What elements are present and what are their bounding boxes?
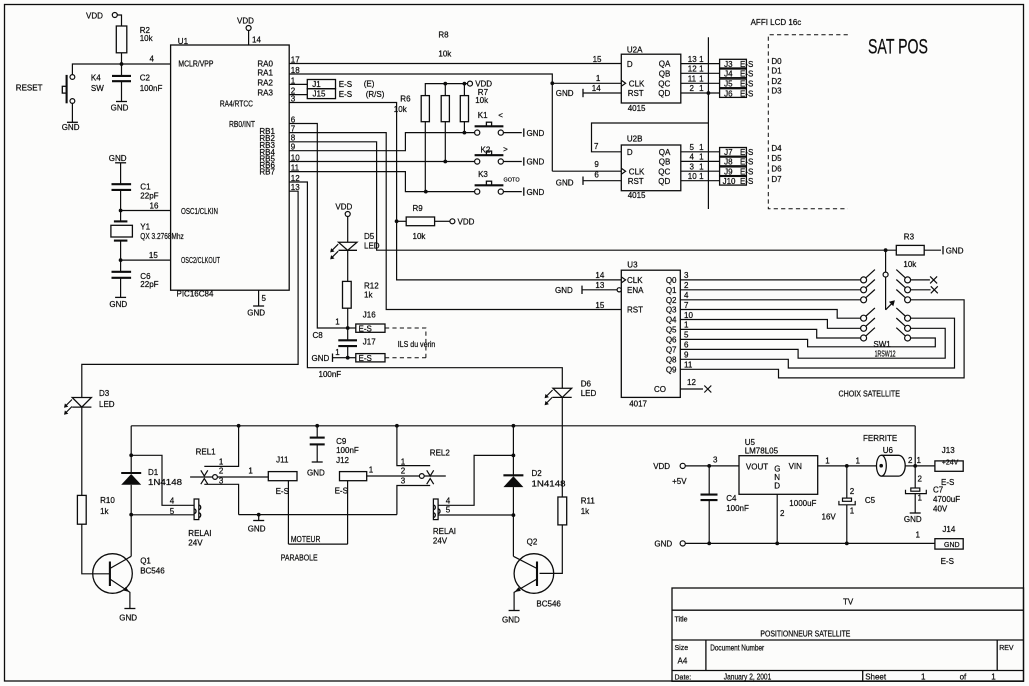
rail +24V top xyxy=(131,425,915,427)
svg-text:RB7: RB7 xyxy=(259,168,275,177)
svg-text:ENA: ENA xyxy=(627,286,644,295)
svg-text:C1: C1 xyxy=(140,183,151,192)
svg-text:13: 13 xyxy=(595,281,604,290)
ground C9 xyxy=(307,462,325,478)
svg-text:14: 14 xyxy=(252,36,261,45)
svg-text:CLK: CLK xyxy=(629,167,645,176)
svg-text:Size: Size xyxy=(675,645,689,652)
resistor R3 xyxy=(896,233,924,270)
svg-text:REL2: REL2 xyxy=(430,448,451,457)
svg-text:7: 7 xyxy=(684,301,689,310)
svg-text:1: 1 xyxy=(401,457,406,466)
node K2 junction xyxy=(443,160,447,164)
svg-text:J3: J3 xyxy=(724,60,733,69)
svg-text:VDD: VDD xyxy=(237,16,254,25)
U1 right pin numbers xyxy=(291,55,300,192)
wire VDD to R2 xyxy=(117,15,121,26)
wire ILS dashed xyxy=(385,328,435,358)
capacitor C9 xyxy=(310,426,359,462)
node K3 junction xyxy=(424,190,428,194)
wire node to U1 pin4 xyxy=(122,63,171,65)
svg-text:GND: GND xyxy=(904,515,922,524)
svg-text:1000uF: 1000uF xyxy=(789,499,816,508)
svg-text:D6: D6 xyxy=(771,165,782,174)
jumper J8 xyxy=(720,157,754,167)
wire U3 CO no-connect xyxy=(680,386,711,393)
svg-text:GND: GND xyxy=(654,540,672,549)
svg-text:E-S: E-S xyxy=(740,168,753,177)
op IC U2A 4015 xyxy=(621,45,681,113)
transistor Q2 xyxy=(513,537,561,610)
svg-text:FERRITE: FERRITE xyxy=(863,434,897,443)
svg-text:4700uF: 4700uF xyxy=(933,495,960,504)
svg-text:14: 14 xyxy=(595,271,604,280)
wire D6 to R11 xyxy=(561,397,563,497)
wire R3 to ground xyxy=(924,249,941,251)
svg-text:1: 1 xyxy=(684,321,689,330)
svg-text:1: 1 xyxy=(219,457,224,466)
jumper J7 xyxy=(720,148,754,158)
node rail D2 xyxy=(512,424,516,428)
transistor Q1 xyxy=(93,554,166,609)
svg-text:GND: GND xyxy=(109,154,127,163)
node pullup right xyxy=(463,82,467,86)
ground C1 top xyxy=(109,154,127,184)
svg-text:+24V: +24V xyxy=(942,460,959,467)
svg-text:E-S: E-S xyxy=(359,354,372,363)
crystal Y1 xyxy=(111,211,184,261)
relay contact REL2 xyxy=(397,426,450,515)
svg-text:GND: GND xyxy=(946,246,964,255)
svg-text:40V: 40V xyxy=(933,505,948,514)
svg-text:J15: J15 xyxy=(313,89,326,98)
jumper J6 xyxy=(720,89,754,99)
svg-text:1: 1 xyxy=(825,457,830,466)
svg-text:Q8: Q8 xyxy=(666,355,677,364)
svg-text:U1: U1 xyxy=(178,37,189,46)
svg-text:Q7: Q7 xyxy=(666,345,677,354)
svg-text:GND: GND xyxy=(555,286,573,295)
svg-text:E-S: E-S xyxy=(740,70,753,79)
svg-text:E-S: E-S xyxy=(740,80,753,89)
U3 clock triangle xyxy=(621,277,625,283)
svg-text:of: of xyxy=(960,673,967,682)
svg-text:REV: REV xyxy=(999,645,1014,652)
svg-text:K1: K1 xyxy=(478,111,488,120)
resistor R2 xyxy=(116,26,153,53)
svg-text:Date:: Date: xyxy=(675,675,692,682)
wire U3 Q4 to SW1 xyxy=(680,320,860,329)
svg-text:J10: J10 xyxy=(723,177,736,186)
svg-text:RB0/INT: RB0/INT xyxy=(229,120,255,129)
wire U2A QD to J6 xyxy=(681,92,720,94)
led D3 xyxy=(64,389,115,415)
node CLK branch xyxy=(550,81,554,85)
wire coil REL2 pin5 xyxy=(438,506,513,516)
button K2 xyxy=(475,145,509,164)
svg-text:MCLR/VPP: MCLR/VPP xyxy=(178,60,213,69)
svg-text:E-S: E-S xyxy=(740,148,753,157)
svg-text:2: 2 xyxy=(780,509,785,518)
resistor R6 (left pullup) xyxy=(394,95,430,122)
resistor R8 labels xyxy=(438,31,452,59)
svg-text:R9: R9 xyxy=(413,204,424,213)
node GND C5 xyxy=(845,542,849,546)
svg-text:2: 2 xyxy=(850,487,855,496)
SW1 wiper arrow xyxy=(886,300,895,310)
svg-text:A4: A4 xyxy=(678,657,688,666)
wire RA2 pin1 to J1 xyxy=(289,83,307,85)
svg-text:Document Number: Document Number xyxy=(710,644,764,653)
svg-text:RA4/RTCC: RA4/RTCC xyxy=(220,100,253,109)
SW1 upper-left contacts xyxy=(861,270,875,303)
SW1 no-connect X marks xyxy=(911,276,938,293)
svg-text:U2A: U2A xyxy=(627,45,643,54)
svg-text:BC546: BC546 xyxy=(140,566,165,575)
svg-text:MOTEUR: MOTEUR xyxy=(291,535,321,544)
node J16 xyxy=(313,318,350,341)
svg-text:C8: C8 xyxy=(313,331,324,340)
svg-text:11: 11 xyxy=(688,75,697,84)
wire pin15 xyxy=(121,251,171,260)
svg-text:PIC16C84: PIC16C84 xyxy=(177,290,214,299)
svg-text:J11: J11 xyxy=(276,455,289,464)
svg-text:Q2: Q2 xyxy=(527,537,538,546)
wire rail to D2 xyxy=(512,426,514,456)
node pullup mid xyxy=(443,82,447,86)
wire U3 Q5 to SW1 xyxy=(680,329,860,338)
svg-text:C9: C9 xyxy=(336,437,347,446)
svg-text:GND: GND xyxy=(527,188,545,197)
svg-text:1: 1 xyxy=(916,531,921,540)
svg-text:K2: K2 xyxy=(481,145,491,154)
svg-text:1: 1 xyxy=(921,673,926,682)
wire D1 to coil pin4 xyxy=(131,455,194,505)
wire left pullup to K3 row xyxy=(424,122,426,192)
svg-text:PARABOLE: PARABOLE xyxy=(281,554,318,563)
svg-text:2: 2 xyxy=(690,84,695,93)
svg-text:22pF: 22pF xyxy=(140,191,158,200)
relay contact REL1 xyxy=(190,426,239,515)
svg-text:QC: QC xyxy=(658,80,670,89)
svg-text:15: 15 xyxy=(593,55,602,64)
node J17 ground xyxy=(335,348,349,360)
svg-text:Q4: Q4 xyxy=(666,316,677,325)
SW1 upper-right contacts xyxy=(896,270,910,303)
svg-text:C4: C4 xyxy=(726,494,737,503)
svg-text:1: 1 xyxy=(918,493,923,502)
svg-text:GND: GND xyxy=(248,525,266,534)
svg-text:9: 9 xyxy=(684,351,689,360)
svg-text:VDD: VDD xyxy=(458,217,475,226)
svg-text:1: 1 xyxy=(850,506,855,515)
wire node to switch K4 xyxy=(72,64,121,75)
wire R10 to Q1 base xyxy=(82,524,110,574)
jumper J12 xyxy=(335,472,367,496)
svg-text:GND: GND xyxy=(502,615,520,624)
svg-text:2: 2 xyxy=(219,467,224,476)
svg-text:15: 15 xyxy=(149,251,158,260)
relay coil REL2 xyxy=(433,499,456,546)
svg-text:Q5: Q5 xyxy=(666,325,677,334)
svg-text:J5: J5 xyxy=(724,80,733,89)
wire R11 to Q2 base xyxy=(540,525,563,574)
U1 pin5 ground xyxy=(247,290,266,317)
svg-text:RA0: RA0 xyxy=(257,60,273,69)
wire J11 to motor xyxy=(287,481,289,544)
svg-text:J13: J13 xyxy=(942,446,955,455)
svg-text:5: 5 xyxy=(446,506,451,515)
wire K4 to ground xyxy=(71,103,73,122)
svg-text:RA3: RA3 xyxy=(257,88,273,97)
op IC U3 4017 xyxy=(621,260,680,408)
wire RB6 pin12 to D6 xyxy=(289,182,562,388)
svg-text:J4: J4 xyxy=(724,70,733,79)
svg-text:Q9: Q9 xyxy=(666,365,677,374)
svg-text:K3: K3 xyxy=(478,170,488,179)
svg-text:RELAI: RELAI xyxy=(433,527,456,536)
ground K1 xyxy=(503,128,544,137)
wire RB0 pin6 to J16 node xyxy=(289,124,348,329)
U1 pin labels inside xyxy=(178,60,275,266)
op IC U1 PIC16C84 xyxy=(171,37,290,299)
svg-text:6: 6 xyxy=(594,170,599,179)
svg-text:Q0: Q0 xyxy=(666,276,677,285)
svg-text:QC: QC xyxy=(658,167,670,176)
jumper J13 xyxy=(915,446,963,487)
svg-text:1: 1 xyxy=(699,84,704,93)
svg-text:6: 6 xyxy=(684,341,689,350)
svg-text:1: 1 xyxy=(991,673,996,682)
svg-text:C7: C7 xyxy=(933,486,944,495)
svg-text:CLK: CLK xyxy=(629,80,645,89)
U2A pin numbers xyxy=(592,55,704,93)
node VIN C5 xyxy=(845,464,849,468)
SW1 lower-left contacts xyxy=(861,308,875,341)
svg-text:1: 1 xyxy=(699,162,704,171)
motor box MOTEUR xyxy=(288,535,347,544)
svg-text:QB: QB xyxy=(659,157,671,166)
svg-text:>: > xyxy=(503,145,508,154)
svg-text:QD: QD xyxy=(658,89,670,98)
wire pin16 xyxy=(121,201,171,210)
jumper J11 xyxy=(268,455,297,496)
svg-text:RA1: RA1 xyxy=(257,69,273,78)
svg-text:LED: LED xyxy=(581,389,597,398)
svg-text:10k: 10k xyxy=(438,50,452,59)
svg-text:D1: D1 xyxy=(771,67,782,76)
capacitor C6 xyxy=(112,260,159,297)
svg-text:D5: D5 xyxy=(364,232,375,241)
power VDD (R2 pull-up) xyxy=(86,12,117,21)
svg-text:1: 1 xyxy=(699,143,704,152)
node pin16 xyxy=(119,209,123,213)
wire D5 to R12 xyxy=(347,250,349,281)
svg-text:10: 10 xyxy=(684,311,693,320)
svg-text:4: 4 xyxy=(170,496,175,505)
capacitor C1 xyxy=(112,183,159,211)
svg-text:QX 3.2768Mhz: QX 3.2768Mhz xyxy=(140,232,184,241)
svg-text:4: 4 xyxy=(446,496,451,505)
svg-text:D4: D4 xyxy=(771,144,782,153)
op IC U2B 4015 xyxy=(621,135,681,201)
svg-text:D7: D7 xyxy=(771,175,782,184)
node D0-D3 labels xyxy=(771,57,782,96)
wire RB3 pin9 to K1 xyxy=(289,133,474,151)
svg-text:January 2, 2001: January 2, 2001 xyxy=(724,673,772,682)
svg-text:GND: GND xyxy=(312,354,330,363)
svg-text:1RSW12: 1RSW12 xyxy=(875,350,896,359)
wire U2A QB to J4 xyxy=(681,72,720,74)
svg-text:VOUT: VOUT xyxy=(746,462,768,471)
rail motor ground xyxy=(239,514,397,516)
svg-text:REL1: REL1 xyxy=(196,447,217,456)
svg-text:D: D xyxy=(627,148,633,157)
svg-text:3: 3 xyxy=(690,162,695,171)
svg-text:RESET: RESET xyxy=(16,84,43,93)
led D6 xyxy=(545,380,597,406)
svg-text:E-S: E-S xyxy=(339,80,352,89)
svg-text:10k: 10k xyxy=(413,232,427,241)
node D2 anode xyxy=(512,513,516,517)
svg-text:J17: J17 xyxy=(363,338,376,347)
svg-text:15: 15 xyxy=(595,301,604,310)
svg-text:GND: GND xyxy=(247,309,265,318)
svg-text:4: 4 xyxy=(684,291,689,300)
switch K4 xyxy=(62,73,104,103)
svg-text:D: D xyxy=(774,482,780,491)
relay coil REL1 xyxy=(188,499,211,548)
node rail REL2 pin1 xyxy=(395,424,399,428)
svg-text:100nF: 100nF xyxy=(319,370,342,379)
svg-text:7: 7 xyxy=(594,142,599,151)
svg-text:QA: QA xyxy=(659,148,671,157)
svg-text:5: 5 xyxy=(170,507,175,516)
wire coil pin5 xyxy=(131,507,194,516)
svg-text:GND: GND xyxy=(556,89,574,98)
svg-text:Q2: Q2 xyxy=(666,296,677,305)
node J13 xyxy=(913,464,917,468)
svg-text:D2: D2 xyxy=(532,469,543,478)
ground K3 xyxy=(503,187,544,196)
wire serial bus xyxy=(707,37,709,209)
svg-text:GOTO: GOTO xyxy=(504,177,521,183)
svg-text:C2: C2 xyxy=(140,74,151,83)
wire RB4 pin10 to K2 xyxy=(289,161,475,163)
ground C2 xyxy=(111,102,129,113)
capacitor C2 xyxy=(112,64,162,102)
node VDD C4 xyxy=(707,464,711,468)
svg-text:GND: GND xyxy=(527,158,545,167)
svg-text:J12: J12 xyxy=(336,456,349,465)
svg-text:GND: GND xyxy=(307,469,325,478)
svg-text:VDD: VDD xyxy=(86,12,103,21)
svg-text:Q1: Q1 xyxy=(666,286,677,295)
svg-text:Y1: Y1 xyxy=(140,223,150,232)
capacitor C5 polarized xyxy=(822,466,876,544)
U2A clock triangle xyxy=(621,80,625,86)
svg-text:10: 10 xyxy=(688,172,697,181)
svg-text:3: 3 xyxy=(684,271,689,280)
resistor R11 xyxy=(558,496,595,525)
capacitor C7 polarized xyxy=(906,466,961,514)
node rail REL1 pin1 xyxy=(237,424,241,428)
resistor R7 (right pullup) xyxy=(460,84,489,133)
svg-text:K4: K4 xyxy=(91,73,101,82)
wire R2 to node MCLR xyxy=(121,53,123,64)
svg-text:CLK: CLK xyxy=(627,276,643,285)
svg-text:RA2: RA2 xyxy=(257,79,273,88)
wire U3 Q0 to SW1 xyxy=(680,279,860,281)
svg-text:10k: 10k xyxy=(140,34,154,43)
svg-text:U3: U3 xyxy=(627,260,638,269)
svg-text:10k: 10k xyxy=(394,105,408,114)
svg-text:E-S: E-S xyxy=(740,89,753,98)
svg-text:1k: 1k xyxy=(100,507,109,516)
svg-text:LED: LED xyxy=(99,400,115,409)
svg-text:J7: J7 xyxy=(724,148,733,157)
wire RB5 pin11 to K3 xyxy=(289,172,475,192)
wire J12 to REL2 common xyxy=(367,465,420,476)
resistor mid pullup xyxy=(441,84,449,162)
ground K2 xyxy=(503,157,544,166)
svg-text:2: 2 xyxy=(684,281,689,290)
svg-text:9: 9 xyxy=(594,160,599,169)
svg-text:D5: D5 xyxy=(771,154,782,163)
svg-text:CO: CO xyxy=(654,385,666,394)
svg-text:1: 1 xyxy=(699,65,704,74)
svg-text:24V: 24V xyxy=(188,539,203,548)
node rail C9 xyxy=(315,424,319,428)
wire U3 Q2 to SW1 xyxy=(680,299,860,301)
jumper J14 xyxy=(916,525,964,566)
svg-text:SW: SW xyxy=(91,84,104,93)
jumper J17 xyxy=(348,338,385,363)
title block texts xyxy=(675,598,1014,682)
wire RB7 pin13 to D3 xyxy=(82,191,298,397)
svg-text:J1: J1 xyxy=(312,80,321,89)
wire D1 anode to Q1 collector xyxy=(130,515,132,557)
ground C7 xyxy=(904,513,922,524)
svg-text:2: 2 xyxy=(401,467,406,476)
svg-text:R6: R6 xyxy=(400,95,411,104)
svg-text:<: < xyxy=(498,111,503,120)
svg-text:RST: RST xyxy=(628,89,644,98)
svg-text:E-S: E-S xyxy=(740,177,753,186)
svg-text:2: 2 xyxy=(918,474,923,483)
svg-text:12: 12 xyxy=(688,65,697,74)
svg-text:POSITIONNEUR SATELLITE: POSITIONNEUR SATELLITE xyxy=(760,630,850,639)
node QD bus xyxy=(707,91,711,95)
svg-text:3: 3 xyxy=(401,476,406,485)
svg-text:4: 4 xyxy=(690,153,695,162)
svg-text:VDD: VDD xyxy=(653,462,670,471)
svg-text:D3: D3 xyxy=(771,87,782,96)
svg-text:E-S: E-S xyxy=(335,486,348,495)
U3 labels xyxy=(627,276,644,315)
svg-text:4015: 4015 xyxy=(628,104,646,113)
resistor R12 xyxy=(343,281,380,308)
svg-text:GND: GND xyxy=(527,129,545,138)
node K1 junction xyxy=(463,131,467,135)
button K3 xyxy=(475,170,521,194)
svg-text:U6: U6 xyxy=(883,446,894,455)
wire U2A QA to J3 xyxy=(681,63,720,65)
svg-text:GND: GND xyxy=(111,103,129,112)
resistor R10 xyxy=(77,495,115,524)
svg-text:D0: D0 xyxy=(771,57,782,66)
svg-text:Title: Title xyxy=(675,617,688,624)
